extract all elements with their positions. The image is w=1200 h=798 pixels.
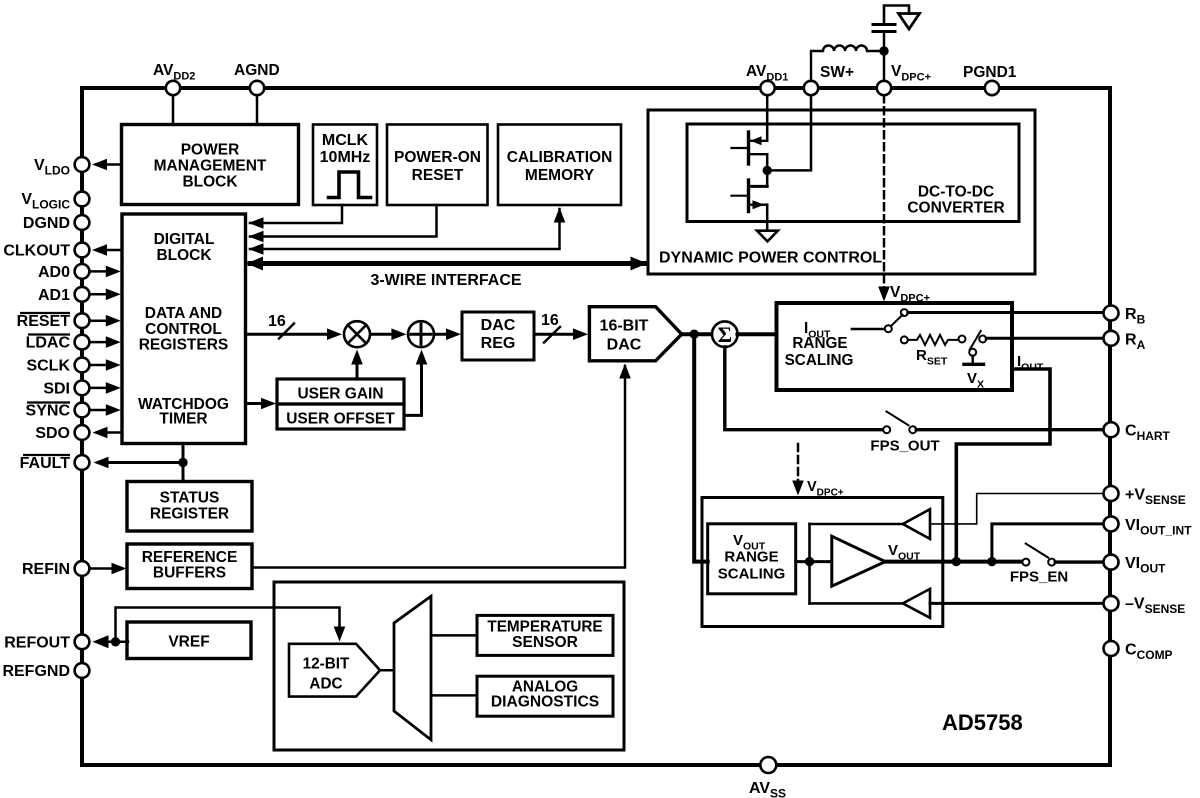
block DC-TO-DC CONVERTER (inner box) xyxy=(687,124,1019,222)
svg-text:CALIBRATION: CALIBRATION xyxy=(507,149,613,166)
block POWER-ON RESET xyxy=(387,125,488,206)
wire FPS_EN switch to VIOUT pin xyxy=(1055,560,1103,563)
wire Q1 source to node xyxy=(766,154,769,170)
pin RA xyxy=(1104,331,1119,346)
pin REFGND xyxy=(75,663,90,678)
pin SW+ xyxy=(804,81,818,95)
pin VLDO xyxy=(75,157,122,172)
switch VX xyxy=(964,331,986,364)
box ADC and diagnostics enclosure xyxy=(274,582,624,750)
wire VOUT output to FPS_EN switch xyxy=(885,560,1022,564)
svg-text:AD1: AD1 xyxy=(38,287,70,304)
svg-text:DAC: DAC xyxy=(481,317,516,334)
svg-text:VREF: VREF xyxy=(168,634,209,651)
pin -VSENSE xyxy=(1104,596,1119,611)
wire switch to RB pin xyxy=(908,311,1103,314)
svg-text:REGISTER: REGISTER xyxy=(150,506,229,523)
wire VDPC+ dashed into VOUT box xyxy=(792,444,804,496)
svg-text:FAULT: FAULT xyxy=(20,455,71,472)
svg-text:12-BIT: 12-BIT xyxy=(303,656,350,673)
svg-text:RANGE: RANGE xyxy=(792,335,847,352)
svg-text:CONVERTER: CONVERTER xyxy=(907,200,1004,217)
svg-text:DIGITAL: DIGITAL xyxy=(154,231,215,248)
pin SDO xyxy=(75,425,122,440)
svg-text:SCLK: SCLK xyxy=(26,358,70,375)
wire mux to temperature sensor xyxy=(431,634,477,637)
op-amp output buffer xyxy=(832,536,886,586)
pin AGND xyxy=(250,81,264,125)
block DAC REG xyxy=(462,312,534,360)
svg-text:DAC: DAC xyxy=(607,337,642,354)
svg-text:BLOCK: BLOCK xyxy=(156,247,212,264)
pin VIOUT_INT xyxy=(1104,516,1119,531)
wire DAC node down to VOUT range scaling xyxy=(694,334,708,561)
wire user offset to adder xyxy=(404,350,427,416)
ground symbol (below Q2) xyxy=(757,231,778,242)
pin SCLK xyxy=(75,358,121,373)
node junction between Q1/Q2/SW+ xyxy=(763,166,772,175)
node junction VIOUT_INT joins output xyxy=(987,557,996,566)
svg-text:16: 16 xyxy=(268,313,286,330)
svg-text:SENSOR: SENSOR xyxy=(512,634,578,651)
block POWER MANAGEMENT BLOCK xyxy=(122,125,299,205)
feedback rail vertical xyxy=(808,524,811,604)
svg-text:MCLK: MCLK xyxy=(322,132,369,149)
svg-text:BLOCK: BLOCK xyxy=(182,174,238,191)
svg-text:SDO: SDO xyxy=(35,425,70,442)
pin CHART xyxy=(1104,422,1119,437)
svg-text:AGND: AGND xyxy=(234,62,280,79)
block STATUS REGISTER xyxy=(127,482,252,532)
node junction DAC output xyxy=(690,330,699,339)
wire power-on reset to digital block xyxy=(249,205,437,242)
wire Q2 source to ground xyxy=(766,205,769,231)
svg-text:MEMORY: MEMORY xyxy=(525,167,595,184)
svg-text:FPS_EN: FPS_EN xyxy=(1010,569,1068,586)
pin VLOGIC xyxy=(75,192,90,207)
svg-text:SDI: SDI xyxy=(43,381,70,398)
node junction REFOUT/ADC loop xyxy=(111,637,120,646)
pin AD1 xyxy=(75,287,121,302)
chip outer border wire xyxy=(82,88,1110,765)
svg-text:LDAC: LDAC xyxy=(26,335,71,352)
node junction IOUT joins output xyxy=(952,557,961,566)
svg-text:BUFFERS: BUFFERS xyxy=(153,565,226,582)
block MCLK 10MHz xyxy=(313,125,377,206)
switch (IOUT range, upper) xyxy=(885,309,908,332)
svg-text:USER OFFSET: USER OFFSET xyxy=(286,411,395,428)
svg-text:16: 16 xyxy=(541,312,559,329)
clock pulse icon xyxy=(329,172,371,198)
svg-text:SW+: SW+ xyxy=(820,64,854,81)
adder circle xyxy=(408,321,434,347)
wire MCLK to digital block xyxy=(249,205,343,229)
svg-text:AD5758: AD5758 xyxy=(942,710,1023,735)
pin SDI xyxy=(75,381,121,396)
svg-text:ADC: ADC xyxy=(309,676,342,693)
bus DAC REG to 16-bit DAC (16) xyxy=(534,327,588,343)
wire to range switch xyxy=(852,328,885,331)
pin DGND xyxy=(75,215,90,230)
block DIGITAL BLOCK / DATA AND CONTROL REGISTERS / WATCHDOG TIMER xyxy=(122,214,246,444)
bus registers to multiplier (16) xyxy=(246,324,343,341)
pin AVSS xyxy=(760,757,776,773)
wire sigma to FPS_OUT switch xyxy=(725,347,883,430)
wire REFOUT node to 12-bit ADC xyxy=(116,608,346,642)
svg-text:RESET: RESET xyxy=(17,313,71,330)
wire DAC output to sigma xyxy=(682,332,712,336)
wire FPS_OUT switch to CHART pin xyxy=(916,428,1103,431)
svg-text:CONTROL: CONTROL xyxy=(145,321,222,338)
wire calibration memory to digital block (bidirectional) xyxy=(249,208,566,255)
svg-text:TIMER: TIMER xyxy=(159,411,207,428)
pin SYNC xyxy=(75,403,121,418)
wire AVDD1 pin into DPC xyxy=(766,95,769,141)
pin RESET xyxy=(75,313,121,328)
node junction feedback/input xyxy=(805,557,814,566)
inductor L (SW+ to VDPC+) xyxy=(811,46,884,81)
svg-text:REFOUT: REFOUT xyxy=(4,634,70,651)
pin RB xyxy=(1104,306,1119,321)
wire watchdog to user gain xyxy=(246,398,277,410)
pin REFOUT xyxy=(75,634,90,649)
pin AVDD1 xyxy=(760,81,774,95)
sigma summing circle xyxy=(712,321,738,347)
transistor Q1 (upper MOSFET) xyxy=(732,132,768,164)
svg-text:USER GAIN: USER GAIN xyxy=(297,386,383,403)
svg-text:16-BIT: 16-BIT xyxy=(600,318,649,335)
block REFERENCE BUFFERS xyxy=(127,544,252,589)
wire digital block to status register xyxy=(182,444,185,482)
wire mux to analog diagnostics xyxy=(431,694,477,697)
svg-text:DGND: DGND xyxy=(23,215,70,232)
wire user gain to multiplier xyxy=(351,350,363,380)
mux trapezoid xyxy=(394,596,431,740)
svg-text:REFERENCE: REFERENCE xyxy=(142,549,238,566)
wire adder to DAC REG xyxy=(435,328,461,340)
wire IOUT from range scaling down to output xyxy=(956,369,1050,562)
svg-text:DYNAMIC POWER CONTROL: DYNAMIC POWER CONTROL xyxy=(659,250,882,267)
block DYNAMIC POWER CONTROL (outer box) xyxy=(648,110,1035,274)
pin +VSENSE xyxy=(1104,486,1119,501)
block CALIBRATION MEMORY xyxy=(498,125,621,206)
op-amp positive sense (top) xyxy=(810,509,931,539)
block ANALOG DIAGNOSTICS xyxy=(477,676,613,716)
block USER OFFSET xyxy=(277,404,404,429)
wire VDPC+ dashed rail down to IOUT range scaling xyxy=(878,95,890,301)
svg-text:CLKOUT: CLKOUT xyxy=(3,243,70,260)
svg-text:REFGND: REFGND xyxy=(2,663,70,680)
pin CLKOUT xyxy=(75,243,122,258)
wire sigma to IOUT range scaling xyxy=(738,332,777,336)
block USER GAIN xyxy=(277,379,404,404)
svg-text:SCALING: SCALING xyxy=(718,566,786,583)
block IOUT RANGE SCALING xyxy=(777,303,1013,390)
wire +VSENSE feedback xyxy=(930,494,1103,524)
wire ADC to mux xyxy=(380,669,394,672)
svg-text:REFIN: REFIN xyxy=(22,561,70,578)
wire VREF to REFOUT pin xyxy=(93,635,129,648)
svg-text:Σ: Σ xyxy=(718,322,732,347)
capacitor C (decoupling at VDPC+) xyxy=(873,6,909,52)
bus 3-WIRE INTERFACE (digital block to DPC) xyxy=(247,257,648,271)
svg-text:FPS_OUT: FPS_OUT xyxy=(870,438,939,455)
block 12-BIT ADC xyxy=(289,644,380,697)
svg-text:REGISTERS: REGISTERS xyxy=(139,337,229,354)
wire reference buffers to 16-bit DAC xyxy=(252,364,631,568)
box VOUT output stage xyxy=(702,498,943,627)
wire node to SW+ pin xyxy=(767,95,811,170)
svg-text:TEMPERATURE: TEMPERATURE xyxy=(487,619,602,636)
pin VDPC+ xyxy=(877,81,891,95)
wire multiplier to adder xyxy=(371,328,407,340)
pin LDAC xyxy=(75,335,121,350)
pin AVDD2 xyxy=(166,81,180,125)
pin AD0 xyxy=(75,264,121,279)
svg-text:POWER: POWER xyxy=(181,142,240,159)
transistor Q2 (lower MOSFET) xyxy=(732,170,768,211)
wire -VSENSE feedback xyxy=(930,602,1103,605)
node junction L/C/VDPC+ xyxy=(879,46,888,55)
wire VRS to amp input xyxy=(796,560,832,563)
pin VIOUT xyxy=(1104,555,1119,570)
svg-text:DIAGNOSTICS: DIAGNOSTICS xyxy=(491,694,599,711)
switch FPS_OUT xyxy=(883,412,916,434)
ground symbol (top capacitor) xyxy=(899,14,920,30)
wire VIOUT_INT xyxy=(992,524,1103,562)
svg-text:RESET: RESET xyxy=(412,167,464,184)
svg-text:MANAGEMENT: MANAGEMENT xyxy=(154,158,267,175)
svg-text:AD0: AD0 xyxy=(38,264,70,281)
pin PGND1 xyxy=(985,81,999,95)
block VREF xyxy=(127,622,251,659)
pin FAULT xyxy=(75,455,183,470)
multiplier circle xyxy=(344,321,370,347)
svg-text:SYNC: SYNC xyxy=(26,403,71,420)
svg-text:PGND1: PGND1 xyxy=(963,64,1017,81)
op-amp negative sense (bottom) xyxy=(810,589,931,618)
pin CCOMP xyxy=(1104,641,1119,656)
wire switch to RA pin xyxy=(986,337,1103,340)
svg-text:10MHz: 10MHz xyxy=(320,149,371,166)
pin REFIN xyxy=(75,561,127,576)
svg-text:DATA AND: DATA AND xyxy=(145,305,223,322)
svg-text:SCALING: SCALING xyxy=(785,352,854,369)
block 16-BIT DAC xyxy=(589,307,681,361)
block TEMPERATURE SENSOR xyxy=(477,615,613,655)
resistor RSET xyxy=(901,335,966,345)
wire VDPC+ pin to node xyxy=(883,51,886,81)
switch FPS_EN xyxy=(1022,544,1055,566)
svg-text:RANGE: RANGE xyxy=(724,549,778,566)
svg-text:POWER-ON: POWER-ON xyxy=(394,149,481,166)
svg-text:3-WIRE INTERFACE: 3-WIRE INTERFACE xyxy=(370,272,521,289)
svg-text:STATUS: STATUS xyxy=(160,490,220,507)
block VOUT RANGE SCALING xyxy=(708,524,796,594)
node junction FAULT/status xyxy=(178,458,187,467)
svg-text:DC-TO-DC: DC-TO-DC xyxy=(918,184,994,201)
svg-text:REG: REG xyxy=(481,335,516,352)
